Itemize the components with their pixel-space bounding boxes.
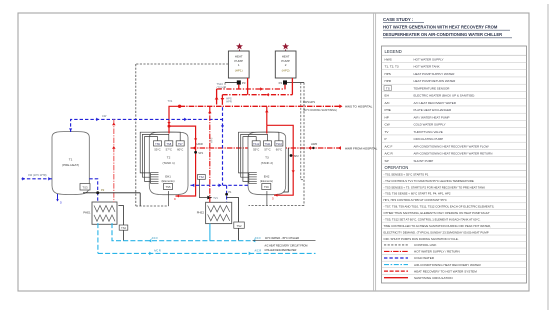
svg-text:A/C R: A/C R — [154, 250, 161, 253]
sensor TS7 — [176, 141, 184, 146]
svg-text:TS11: TS11 — [264, 142, 271, 146]
sensor TS2 with wire to valve TV1 — [198, 175, 206, 180]
fan symbol above heat pump 2 — [282, 43, 289, 50]
control link from HP1 to tank T2 controls — [136, 64, 229, 206]
svg-text:TS10: TS10 — [276, 142, 283, 146]
A/C F line — [112, 223, 252, 241]
page edge line — [547, 4, 549, 310]
svg-text:HWS TO HOSPITAL: HWS TO HOSPITAL — [345, 105, 373, 109]
svg-text:TS5: TS5 — [166, 185, 171, 189]
heat pump HP2 — [275, 51, 296, 78]
svg-text:ELECTRICITY DEMAND. (TYPICAL: ELECTRICITY DEMAND. (TYPICAL SUNDAY 23:3… — [384, 230, 489, 234]
svg-text:T3: T3 — [265, 156, 269, 160]
svg-text:T2: T2 — [167, 156, 171, 160]
svg-text:A/C HEAT RECOVERY CIRCUIT FROM: A/C HEAT RECOVERY CIRCUIT FROM — [265, 245, 308, 248]
svg-text:P: P — [385, 137, 387, 141]
HWR return line from hospital (behind tanks) — [191, 147, 342, 149]
svg-text:HOT WATER SUPPLY: HOT WATER SUPPLY — [414, 57, 444, 61]
control wiring loops tank T3 sensors — [243, 137, 256, 182]
svg-text:SP: SP — [385, 159, 389, 163]
HPS manifold upper — [216, 89, 218, 105]
svg-text:TV1: TV1 — [168, 99, 173, 103]
pipe branch to tank T3 — [266, 106, 268, 125]
svg-text:D: D — [272, 196, 274, 200]
svg-text:PHE: PHE — [385, 108, 391, 112]
svg-text:HPR: HPR — [385, 79, 392, 83]
svg-text:PHE1: PHE1 — [83, 211, 91, 215]
legend box — [382, 46, 527, 283]
svg-text:PHE2: PHE2 — [197, 211, 205, 215]
svg-text:A/C F: A/C F — [152, 237, 159, 240]
svg-text:OPERATION: OPERATION — [385, 165, 409, 170]
svg-text:TS2: TS2 — [199, 175, 204, 179]
svg-text:A/C F: A/C F — [385, 144, 393, 148]
A/C R line — [98, 252, 316, 254]
control wiring loops tank T2 sensors — [145, 137, 158, 182]
control link drop at HP1 — [224, 83, 226, 89]
svg-text:OTHER THAN SANITISING, ELEMENT: OTHER THAN SANITISING, ELEMENTS ONLY OPE… — [384, 211, 490, 215]
svg-text:HOT WATER SUPPLY / RETURN: HOT WATER SUPPLY / RETURN — [414, 250, 460, 254]
svg-text:ELECTRIC HEATER (BACK UP & SAN: ELECTRIC HEATER (BACK UP & SANITISE) — [414, 94, 475, 98]
svg-text:57°C: 57°C — [166, 148, 172, 152]
HPR manifold lower — [221, 95, 223, 105]
svg-text:(Elements): (Elements) — [162, 179, 175, 183]
svg-text:AIR-CONDITIONING HEAT RECOVERY: AIR-CONDITIONING HEAT RECOVERY WATER RET… — [414, 152, 493, 156]
svg-text:P1: P1 — [228, 191, 232, 194]
svg-text:40°C WATER - 35°C CHILLER: 40°C WATER - 35°C CHILLER — [265, 237, 299, 240]
CW branch to PHE2 with pump P1 — [226, 185, 228, 202]
sensor TS8 — [165, 141, 173, 146]
svg-text:SP1: SP1 — [198, 151, 203, 155]
control link stub tank T3 bottom — [266, 191, 268, 206]
svg-text:CW: CW — [102, 114, 107, 118]
hot riser PHE2 to HWS line — [209, 106, 211, 202]
plate heat exchanger PHE2 — [206, 202, 232, 223]
pipe HP2 pump drop — [284, 85, 286, 89]
electric heater EH1 coil — [151, 172, 159, 174]
svg-text:(PRE-HEAT): (PRE-HEAT) — [62, 163, 79, 167]
line style legend — [384, 244, 408, 246]
svg-text:- TS7, TS8, TS9 AND TS10, TS11: - TS7, TS8, TS9 AND TS10, TS11, TS12 CON… — [384, 205, 495, 209]
svg-text:TS9: TS9 — [155, 142, 160, 146]
svg-text:TEMPERATURE SENSOR: TEMPERATURE SENSOR — [414, 86, 451, 90]
svg-text:A/C R: A/C R — [255, 250, 262, 253]
svg-text:HP1, HP2 CONTROLS HPR AT CONST: HP1, HP2 CONTROLS HPR AT CONSTANT 55°C — [384, 198, 447, 202]
svg-text:- TS1 SENSES < 55°C STARTS P1: - TS1 SENSES < 55°C STARTS P1 — [384, 172, 429, 176]
plate heat exchanger PHE1 — [92, 202, 117, 224]
svg-text:A/C HEAT RECOVERY WATER: A/C HEAT RECOVERY WATER — [414, 101, 457, 105]
svg-text:TV1: TV1 — [213, 197, 218, 200]
pipe HP2 right drop — [291, 78, 293, 95]
svg-text:TIME CONTROLLED TO ACHIEVE SAN: TIME CONTROLLED TO ACHIEVE SANITATION DU… — [384, 224, 492, 228]
svg-text:HWR FROM HOSPITAL: HWR FROM HOSPITAL — [345, 146, 378, 150]
pump P4 under HP2 — [287, 82, 304, 84]
svg-text:T1: T1 — [69, 158, 73, 162]
svg-text:HPR: HPR — [226, 100, 232, 104]
svg-text:(Elements): (Elements) — [260, 179, 273, 183]
stub tank T2 bottom — [168, 191, 170, 206]
svg-text:COLD WATER SUPPLY: COLD WATER SUPPLY — [414, 123, 446, 127]
svg-text:SP2: SP2 — [294, 154, 299, 158]
svg-text:(TANK 2): (TANK 2) — [261, 161, 273, 165]
CW drop to tank feeds — [222, 107, 224, 185]
svg-text:55°C: 55°C — [154, 148, 160, 152]
svg-text:57°C: 57°C — [264, 148, 270, 152]
svg-text:TS2: TS2 — [237, 224, 242, 228]
svg-text:(HP2): (HP2) — [282, 69, 290, 73]
svg-text:P2: P2 — [101, 188, 105, 192]
svg-text:COLD WATER: COLD WATER — [414, 256, 435, 260]
A/C F drop from PHE2 — [209, 224, 211, 241]
svg-text:TS8: TS8 — [166, 142, 171, 146]
svg-text:HWS/HPS: HWS/HPS — [303, 100, 315, 104]
svg-text:- TS5, TS6 SENSE < 60°C START: - TS5, TS6 SENSE < 60°C START P3, P4, HP… — [384, 192, 451, 196]
sensor TS5 on tank T2 bottom — [164, 184, 173, 190]
tank T1 (PRE-HEAT) — [52, 132, 89, 195]
svg-text:HOT WATER TANK: HOT WATER TANK — [414, 65, 440, 69]
svg-text:D: D — [60, 202, 62, 205]
pipe into tank T3 top — [266, 125, 268, 133]
svg-text:AIR / WATER HEAT PUMP: AIR / WATER HEAT PUMP — [414, 115, 450, 119]
A/C F label line from chiller — [253, 240, 316, 242]
svg-text:A/C F: A/C F — [255, 237, 262, 240]
sensor TS3 on tank T1 — [80, 184, 90, 191]
svg-text:HWR: HWR — [311, 142, 317, 146]
svg-text:TV: TV — [385, 130, 390, 134]
control link secondary vertical HP2 — [300, 83, 302, 180]
svg-text:EH: EH — [385, 94, 389, 98]
svg-text:HWR: HWR — [197, 142, 203, 146]
svg-text:- TS5, TS12 SET AT 60°C, CONTR: - TS5, TS12 SET AT 60°C, CONTROL 1 ELEME… — [384, 218, 481, 222]
svg-text:TS4: TS4 — [121, 226, 126, 230]
pipe HP1 pump drop — [238, 85, 240, 89]
svg-text:A/C: A/C — [385, 101, 391, 105]
heat pump HP1 — [228, 51, 249, 78]
PHE2 outlet black with sensor TS8a — [227, 198, 239, 222]
svg-text:HPS: HPS — [385, 72, 391, 76]
svg-text:60°C: 60°C — [276, 148, 282, 152]
shunt pump SP1 — [194, 151, 197, 154]
svg-text:(60°C DURING SANITISING): (60°C DURING SANITISING) — [303, 108, 337, 112]
svg-text:SHUNT PUMP: SHUNT PUMP — [414, 159, 434, 163]
pipe into tank T2 top — [168, 126, 170, 133]
svg-text:EH2: EH2 — [264, 175, 270, 179]
svg-text:HEAT PUMP RETURN WATER: HEAT PUMP RETURN WATER — [414, 79, 457, 83]
svg-text:A/C R: A/C R — [385, 152, 394, 156]
svg-text:AIR-CONDITIONING HEAT RECOVERY: AIR-CONDITIONING HEAT RECOVERY WATER — [414, 263, 481, 267]
svg-text:TS12: TS12 — [253, 142, 260, 146]
pipe branch right of T2 — [169, 126, 196, 196]
sensor TS10 — [275, 141, 283, 146]
HWS main line to hospital — [180, 105, 341, 107]
svg-text:- TS2 CONTROLS TV1 TO MAINTAIN: - TS2 CONTROLS TV1 TO MAINTAIN 55°C LEAV… — [384, 179, 474, 183]
HWR return line arrows — [193, 146, 196, 150]
svg-text:PLATE HEAT EXCHANGER: PLATE HEAT EXCHANGER — [414, 108, 453, 112]
fan symbol above heat pump 1 — [236, 43, 243, 50]
svg-text:HEAT PUMP SUPPLY WATER: HEAT PUMP SUPPLY WATER — [414, 72, 456, 76]
svg-text:TS7: TS7 — [178, 142, 183, 146]
svg-text:CW: CW — [385, 123, 390, 127]
control dashed bottom T2 — [136, 205, 169, 207]
svg-text:60°C: 60°C — [177, 148, 183, 152]
svg-text:CASE STUDY :: CASE STUDY : — [383, 17, 414, 22]
pipe HP1 right drop — [247, 78, 249, 95]
pipe branch right of T3 — [267, 125, 293, 195]
svg-text:TS6: TS6 — [264, 185, 269, 189]
tank T2 (TANK 1) — [149, 132, 188, 195]
svg-text:LEGEND: LEGEND — [385, 49, 402, 54]
svg-text:SANITISING CIRCULATION: SANITISING CIRCULATION — [414, 276, 453, 280]
sensor TS11 — [264, 141, 272, 146]
tank T3 (TANK 2) — [248, 132, 286, 195]
svg-text:(TANK 1): (TANK 1) — [162, 161, 174, 165]
svg-text:- TS3 SENSES < T3: STARTS P2 F: - TS3 SENSES < T3: STARTS P2 FOR HEAT RE… — [384, 185, 486, 189]
svg-text:HP: HP — [385, 115, 389, 119]
pump P3 under HP1 — [225, 82, 237, 84]
svg-text:HEAT RECOVERY TO HOT WATER SYS: HEAT RECOVERY TO HOT WATER SYSTEM — [414, 269, 477, 273]
sensor TS12 — [252, 141, 260, 146]
throttling valve TV1 on PHE2 outlet — [207, 196, 212, 200]
tank T1 drain — [57, 194, 59, 201]
T1 outlet to PHE1 with pump P2 — [89, 179, 97, 202]
svg-text:CHILLER DESUPERHEATER: CHILLER DESUPERHEATER — [265, 249, 297, 252]
svg-text:CW (10°C WTR): CW (10°C WTR) — [28, 174, 47, 177]
CW header line — [71, 119, 223, 132]
diagram panel divider — [373, 13, 375, 291]
T1 bottom link to T2 — [83, 192, 140, 194]
control link from HP2 down right side — [303, 82, 305, 84]
svg-text:DESUPERHEATER ON AIR-CONDITION: DESUPERHEATER ON AIR-CONDITIONING WATER … — [383, 32, 502, 37]
CW distribution to tanks T2 T3 — [191, 184, 249, 186]
svg-text:P3: P3 — [242, 81, 246, 85]
svg-text:EH1: EH1 — [165, 175, 171, 179]
svg-text:D: D — [174, 197, 176, 201]
electric heater EH2 coil — [249, 172, 257, 174]
PHE1 sensor TS4 wire — [118, 206, 123, 241]
svg-text:(HP1): (HP1) — [235, 69, 243, 73]
svg-text:TS: TS — [386, 86, 390, 90]
hot riser PHE1 to CW header — [113, 119, 115, 202]
svg-text:HWS: HWS — [385, 57, 392, 61]
svg-text:P4: P4 — [279, 81, 283, 85]
A/C R drop from PHE1 bottom left — [97, 223, 99, 253]
svg-text:55°C: 55°C — [253, 148, 259, 152]
svg-text:OFF. SHUNT PUMPS RUN DURING SA: OFF. SHUNT PUMPS RUN DURING SANITATION C… — [384, 237, 459, 241]
svg-text:THROTTLING VALVE: THROTTLING VALVE — [414, 130, 443, 134]
shunt pump SP2 line — [284, 148, 289, 192]
svg-text:HOT WATER GENERATION WITH HEAT: HOT WATER GENERATION WITH HEAT RECOVERY … — [383, 25, 498, 30]
svg-text:T1, T2, T3: T1, T2, T3 — [385, 65, 399, 69]
CW mains inlet to tank T1 — [22, 178, 53, 180]
sensor TS6 on tank T3 bottom — [262, 184, 271, 190]
svg-text:CONTROL LINK: CONTROL LINK — [414, 243, 436, 247]
sensor TS9 — [154, 141, 162, 146]
svg-text:AIR-CONDITIONING HEAT RECOVERY: AIR-CONDITIONING HEAT RECOVERY WATER FLO… — [414, 144, 489, 148]
svg-text:CIRCULATING PUMP: CIRCULATING PUMP — [414, 137, 444, 141]
svg-text:TS3: TS3 — [82, 185, 88, 189]
